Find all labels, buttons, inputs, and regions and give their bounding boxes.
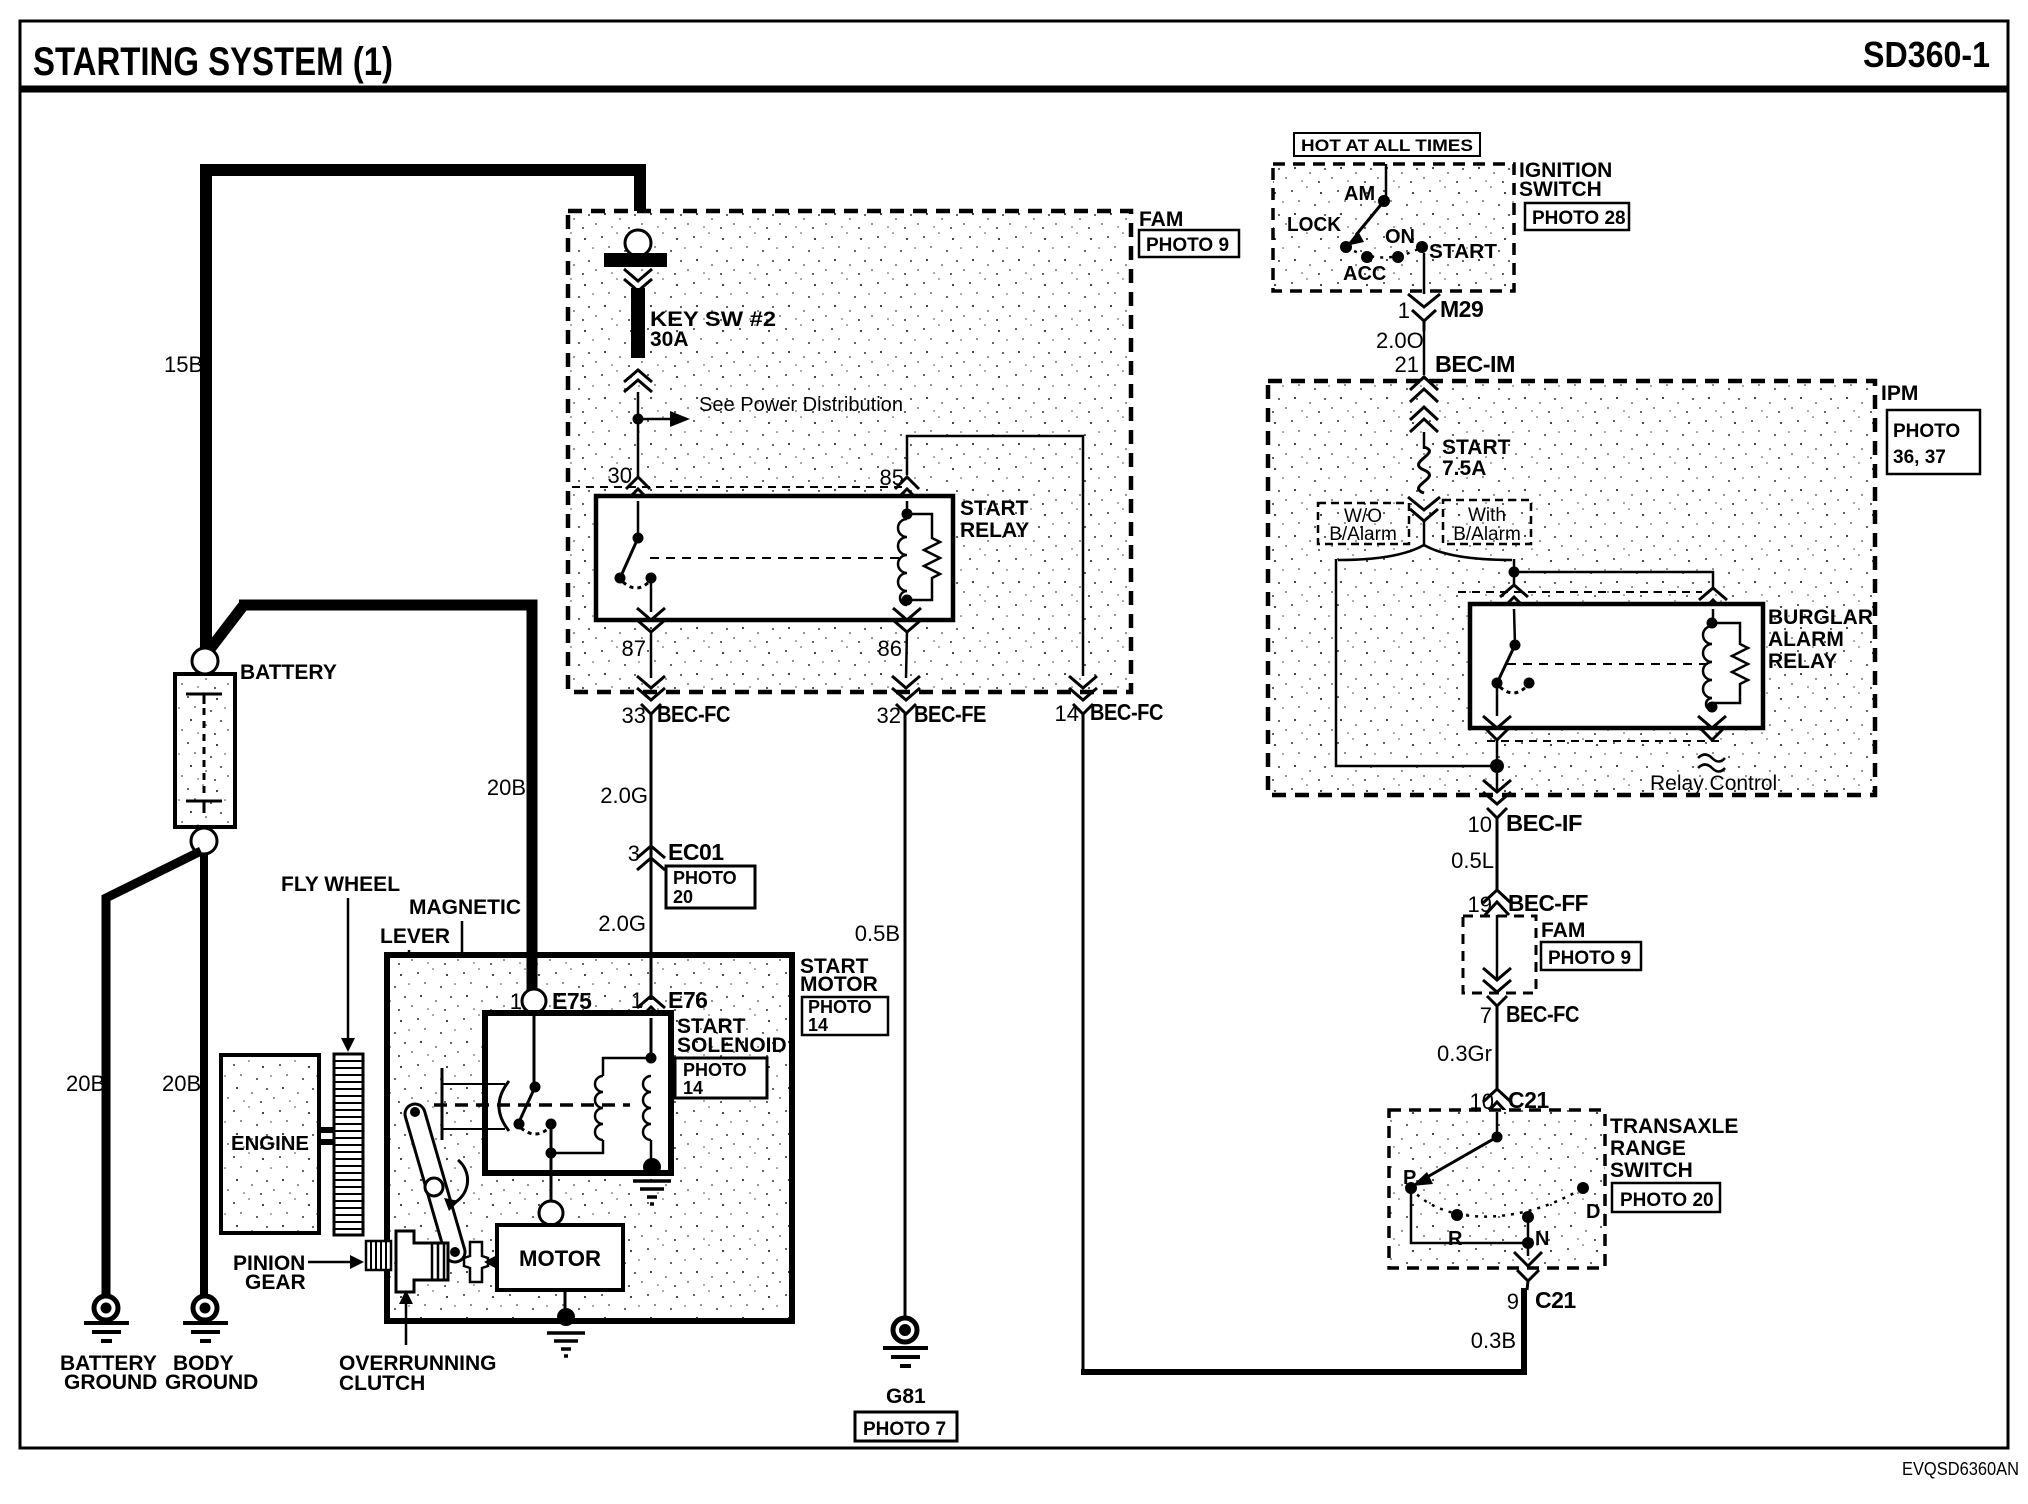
svg-text:FLY WHEEL: FLY WHEEL xyxy=(281,873,400,896)
svg-text:G81: G81 xyxy=(886,1385,926,1408)
wire 0.5B G81 ground wire xyxy=(904,714,907,1317)
svg-text:RANGE: RANGE xyxy=(1610,1137,1686,1160)
node solenoid output junction xyxy=(546,1148,557,1159)
svg-text:32: 32 xyxy=(877,703,901,728)
ground G81 ring terminal xyxy=(883,1318,928,1366)
svg-text:85: 85 xyxy=(880,465,904,490)
svg-text:ALARM: ALARM xyxy=(1768,628,1844,651)
node coil top junction xyxy=(646,1053,657,1064)
svg-text:PHOTO 7: PHOTO 7 xyxy=(863,1419,946,1440)
connector EC01 chevrons xyxy=(637,846,665,870)
svg-text:15B: 15B xyxy=(164,352,203,377)
svg-text:BEC-FE: BEC-FE xyxy=(914,701,986,727)
option box With B/Alarm xyxy=(1443,500,1531,545)
wire from FAM 33 / EC01 down to E76 xyxy=(650,730,653,1000)
connector chevrons pin 86 xyxy=(893,608,921,632)
wire 20B battery negative to battery ground (thick diagonal) xyxy=(106,851,201,1295)
svg-text:P: P xyxy=(1403,1167,1416,1189)
engine block ENGINE xyxy=(221,1055,319,1233)
svg-text:Relay Control: Relay Control xyxy=(1650,772,1777,795)
wire relay switch output to pin 87 xyxy=(650,578,653,612)
photo ref box PHOTO 36, 37 xyxy=(1887,410,1980,474)
svg-text:See Power Distribution: See Power Distribution xyxy=(699,394,903,416)
svg-text:20: 20 xyxy=(673,887,693,907)
crankshaft coupling xyxy=(319,1127,334,1133)
node battery positive terminal xyxy=(192,648,218,674)
wire bottom run to transaxle 0.3B xyxy=(1081,1288,1524,1372)
svg-text:IPM: IPM xyxy=(1881,382,1918,405)
svg-text:E76: E76 xyxy=(668,987,707,1013)
wire tap to relay coil xyxy=(1514,572,1713,588)
relay resistor (start relay) xyxy=(907,514,940,600)
connector chevrons FAM out 33 xyxy=(637,676,665,714)
transaxle range switch dashed box xyxy=(1389,1110,1605,1268)
svg-text:With: With xyxy=(1468,505,1506,526)
photo ref box PHOTO 14 (solenoid) xyxy=(675,1058,767,1098)
svg-text:RELAY: RELAY xyxy=(960,519,1029,542)
svg-text:0.3Gr: 0.3Gr xyxy=(1437,1041,1492,1066)
overrunning clutch body xyxy=(396,1231,448,1292)
svg-text:7.5A: 7.5A xyxy=(1442,457,1486,480)
connector chevrons BEC-IM at IPM edge xyxy=(1410,377,1438,402)
fuse top bar xyxy=(604,253,667,267)
svg-text:33: 33 xyxy=(622,703,646,728)
svg-text:START: START xyxy=(1429,241,1497,263)
relay connector dashed line (bottom) xyxy=(1487,740,1724,742)
wire junction to IPM edge xyxy=(1496,766,1499,792)
connector E76 chevron xyxy=(637,996,665,1018)
svg-text:2.0G: 2.0G xyxy=(598,911,646,936)
svg-text:CLUTCH: CLUTCH xyxy=(339,1372,425,1395)
wire With branch to relay xyxy=(1513,559,1516,585)
wire AM feed xyxy=(1385,164,1388,201)
connector chevrons C21 bottom xyxy=(1514,1252,1542,1290)
transaxle switch contacts xyxy=(1405,1112,1589,1223)
connector chevrons below fuse xyxy=(624,370,652,392)
svg-text:GROUND: GROUND xyxy=(64,1371,157,1394)
wire burglar switch output xyxy=(1496,683,1499,716)
connector chevrons below fuse xyxy=(1408,497,1440,521)
battery BATTERY xyxy=(175,674,235,827)
wire E75 to solenoid switch xyxy=(533,1013,536,1087)
svg-text:BATTERY: BATTERY xyxy=(240,661,337,684)
svg-text:20B: 20B xyxy=(487,775,526,800)
svg-text:FAM: FAM xyxy=(1139,208,1183,231)
burglar alarm relay box xyxy=(1470,604,1763,728)
hot at all times box xyxy=(1294,133,1480,156)
connector chevrons burglar relay coil pin xyxy=(1699,588,1727,612)
magnetic core symbol xyxy=(442,1068,509,1140)
photo ref box PHOTO 9 (FAM) xyxy=(1139,230,1239,257)
connector chevrons burglar relay switch pin xyxy=(1500,585,1528,609)
title separator line xyxy=(20,86,2008,93)
motor MOTOR xyxy=(497,1225,623,1290)
connector chevrons burglar coil out xyxy=(1698,716,1726,740)
node relay output junction xyxy=(1490,759,1504,773)
svg-text:MAGNETIC: MAGNETIC xyxy=(409,896,521,919)
svg-text:LEVER: LEVER xyxy=(380,925,450,948)
svg-text:SD360-1: SD360-1 xyxy=(1863,34,1990,75)
svg-text:BEC-FF: BEC-FF xyxy=(1508,890,1588,916)
svg-text:SOLENOID: SOLENOID xyxy=(677,1034,787,1057)
svg-text:30: 30 xyxy=(608,463,632,488)
connector motor terminal xyxy=(539,1201,563,1225)
node branch to coil tap xyxy=(1509,567,1520,578)
svg-text:BEC-IM: BEC-IM xyxy=(1435,351,1515,377)
IPM module dashed box xyxy=(1268,381,1875,795)
connector chevrons FAM out 32 xyxy=(892,676,920,714)
lever arm xyxy=(410,1107,460,1257)
svg-text:BEC-FC: BEC-FC xyxy=(1506,1001,1579,1027)
connector chevrons C21 top xyxy=(1483,1089,1511,1115)
svg-text:D: D xyxy=(1586,1201,1600,1223)
node N junction xyxy=(1522,1237,1534,1249)
wire through FAM pass-through xyxy=(1496,915,1499,980)
wire junction to pull-in coil xyxy=(551,1140,603,1153)
connector chevrons BEC-IM at IPM edge (overlay) xyxy=(1410,377,1438,402)
svg-text:GEAR: GEAR xyxy=(245,1271,306,1294)
connector chevrons FAM out bottom xyxy=(1483,968,1511,1006)
wire 0.3Gr xyxy=(1496,1006,1499,1090)
node power distribution tap xyxy=(633,414,644,425)
connector chevrons inside IPM xyxy=(1410,407,1438,432)
fly wheel xyxy=(334,1054,363,1235)
svg-text:14: 14 xyxy=(683,1078,703,1098)
ground start motor case ground xyxy=(547,1333,585,1356)
svg-text:MOTOR: MOTOR xyxy=(519,1246,601,1271)
wire motor to case ground xyxy=(564,1290,567,1314)
wire fuse to relay pin 30 xyxy=(637,392,640,478)
svg-text:9: 9 xyxy=(1507,1289,1519,1314)
svg-text:2.0O: 2.0O xyxy=(1376,328,1424,353)
connector chevrons burglar switch out xyxy=(1483,716,1511,740)
coil hold-in winding xyxy=(643,1076,651,1140)
svg-text:PHOTO: PHOTO xyxy=(673,868,737,888)
svg-text:20B: 20B xyxy=(66,1071,105,1096)
start solenoid box xyxy=(485,1013,671,1173)
wire pin 86 to FAM edge xyxy=(906,630,907,678)
connector chevrons pin 85 xyxy=(895,477,919,501)
svg-text:STARTING SYSTEM (1): STARTING SYSTEM (1) xyxy=(33,40,393,84)
svg-text:PHOTO 9: PHOTO 9 xyxy=(1146,235,1229,256)
FAM internal connector dashed line xyxy=(572,486,903,488)
start relay box xyxy=(596,496,953,620)
wire 20B battery to E75 (thick, diagonal + horizontal + vertical) xyxy=(207,606,243,653)
burglar relay switch xyxy=(1492,609,1535,693)
wire W/O bypass branch xyxy=(1336,559,1492,766)
svg-text:PHOTO 28: PHOTO 28 xyxy=(1532,208,1626,229)
coil pull-in winding xyxy=(595,1076,603,1140)
svg-text:MOTOR: MOTOR xyxy=(800,973,878,996)
wire hold-in coil to case ground xyxy=(650,1140,653,1165)
svg-text:C21: C21 xyxy=(1535,1287,1576,1313)
wire START contact to M29 xyxy=(1423,253,1426,294)
svg-text:TRANSAXLE: TRANSAXLE xyxy=(1610,1115,1738,1138)
svg-text:ENGINE: ENGINE xyxy=(231,1133,309,1155)
svg-text:SWITCH: SWITCH xyxy=(1610,1159,1693,1182)
svg-text:GROUND: GROUND xyxy=(165,1371,258,1394)
svg-text:BEC-FC: BEC-FC xyxy=(657,701,730,727)
wire split to alarm branches xyxy=(1423,521,1426,546)
ground body ground terminal xyxy=(183,1296,228,1341)
photo ref box PHOTO 9 (lower) xyxy=(1541,942,1641,970)
solenoid dashed actuation line xyxy=(434,1103,630,1107)
FAM pass-through dashed box xyxy=(1463,916,1536,993)
connector chevrons FAM out 14 xyxy=(1069,676,1097,714)
svg-text:20B: 20B xyxy=(162,1071,201,1096)
svg-text:HOT AT ALL TIMES: HOT AT ALL TIMES xyxy=(1301,136,1473,155)
connector chevrons IPM out 10 xyxy=(1483,780,1511,818)
node battery negative terminal xyxy=(191,828,217,854)
svg-text:0.3B: 0.3B xyxy=(1471,1328,1516,1353)
wire relay pin 85 loop to pin 14 BEC-FC xyxy=(907,436,1083,676)
ground battery ground terminal xyxy=(84,1296,129,1341)
solenoid switch contacts xyxy=(514,1082,557,1135)
svg-text:30A: 30A xyxy=(650,328,689,351)
wire P contact to N junction xyxy=(1411,1188,1528,1243)
wire switch to motor junction xyxy=(550,1124,553,1153)
relay coil (start relay) xyxy=(898,501,913,606)
wire E76 to coil node xyxy=(650,1018,653,1058)
svg-text:PHOTO 9: PHOTO 9 xyxy=(1548,948,1631,969)
svg-text:B/Alarm: B/Alarm xyxy=(1453,524,1521,545)
wire 2.0O xyxy=(1423,331,1426,375)
relay actuation dashed line (burglar) xyxy=(1507,663,1710,665)
wire N contact down xyxy=(1527,1217,1530,1256)
svg-text:B/Alarm: B/Alarm xyxy=(1329,524,1397,545)
svg-text:PHOTO 20: PHOTO 20 xyxy=(1620,1190,1714,1211)
svg-text:RELAY: RELAY xyxy=(1768,650,1837,673)
svg-text:FAM: FAM xyxy=(1541,919,1585,942)
relay switch xyxy=(615,501,657,588)
ignition switch contacts xyxy=(1340,195,1428,263)
svg-text:BEC-FC: BEC-FC xyxy=(1090,699,1163,725)
wire 33 BEC-FC down (2.0G) xyxy=(650,714,653,846)
start motor box START MOTOR xyxy=(387,955,792,1321)
svg-text:BEC-IF: BEC-IF xyxy=(1506,810,1582,836)
wire pull-in coil top to E76 node xyxy=(603,1058,651,1076)
svg-text:3: 3 xyxy=(628,841,640,866)
svg-text:36, 37: 36, 37 xyxy=(1893,447,1946,468)
svg-text:86: 86 xyxy=(878,636,902,661)
relay connector dashed line (top) xyxy=(1458,591,1702,593)
connector chevrons below bar xyxy=(624,269,652,291)
option box W/O B/Alarm xyxy=(1318,503,1409,545)
wire 14 BEC-FC down to bottom run xyxy=(1082,714,1085,1372)
burglar relay resistor xyxy=(1712,623,1748,703)
ignition switch dashed box xyxy=(1273,164,1514,291)
svg-text:EC01: EC01 xyxy=(668,839,724,865)
wire 0.5L xyxy=(1496,818,1499,890)
wire 20B inside start motor box to E75 xyxy=(527,953,538,991)
svg-text:R: R xyxy=(1448,1228,1463,1250)
svg-text:21: 21 xyxy=(1395,352,1419,377)
ground solenoid ground symbol xyxy=(633,1181,671,1204)
svg-text:1: 1 xyxy=(631,988,643,1013)
svg-text:PHOTO: PHOTO xyxy=(808,997,872,1017)
relay actuation dashed line xyxy=(650,557,899,559)
wire to START fuse xyxy=(1423,432,1426,449)
svg-text:14: 14 xyxy=(1055,701,1079,726)
photo ref box PHOTO 20 (transaxle) xyxy=(1612,1183,1720,1212)
wire solenoid switch to motor terminal xyxy=(550,1158,553,1201)
connector chevrons BEC-FF xyxy=(1483,890,1511,915)
svg-text:10: 10 xyxy=(1468,812,1492,837)
svg-text:AM: AM xyxy=(1344,183,1375,205)
svg-text:0.5L: 0.5L xyxy=(1451,848,1494,873)
svg-text:7: 7 xyxy=(1480,1003,1492,1028)
svg-text:SWITCH: SWITCH xyxy=(1519,178,1602,201)
svg-text:START: START xyxy=(1442,436,1511,459)
photo ref box PHOTO 7 xyxy=(855,1412,957,1441)
fuse START 7.5A (wavy) xyxy=(1419,447,1430,493)
photo ref box PHOTO 20 (EC01) xyxy=(666,866,755,908)
node solenoid ground dot xyxy=(643,1158,661,1176)
svg-text:N: N xyxy=(1535,1228,1549,1250)
svg-text:0.5B: 0.5B xyxy=(855,921,900,946)
svg-text:PHOTO: PHOTO xyxy=(1893,421,1960,442)
FAM module dashed box xyxy=(568,211,1131,692)
pinion gear (striped) xyxy=(366,1241,391,1270)
connector chevrons pin 30 xyxy=(626,477,650,501)
wire 15B battery positive to key fuse (thick) xyxy=(206,170,640,652)
svg-text:ON: ON xyxy=(1385,226,1415,248)
svg-text:LOCK: LOCK xyxy=(1287,214,1342,236)
connector E75 terminal xyxy=(522,989,546,1013)
wire pin 87 to FAM edge xyxy=(650,630,653,678)
connector M29 chevrons xyxy=(1408,294,1440,331)
svg-text:2.0G: 2.0G xyxy=(600,783,648,808)
photo ref box PHOTO 28 xyxy=(1525,203,1629,230)
relay control continuation squiggle xyxy=(1698,755,1725,772)
fuse KEY SW #2 30A terminal circle xyxy=(625,230,651,256)
wire tap arrow See Power Distribution xyxy=(638,418,670,421)
svg-text:EVQSD6360AN: EVQSD6360AN xyxy=(1902,1459,2019,1479)
svg-text:14: 14 xyxy=(808,1015,828,1035)
drive shaft coupler xyxy=(464,1242,497,1282)
photo ref box PHOTO 14 (start motor) xyxy=(802,997,888,1035)
burglar relay coil xyxy=(1703,609,1718,713)
svg-text:BURGLAR: BURGLAR xyxy=(1768,606,1873,629)
lever rotation arrow xyxy=(452,1160,468,1204)
node motor ground dot xyxy=(557,1308,575,1326)
svg-text:87: 87 xyxy=(622,636,646,661)
svg-text:M29: M29 xyxy=(1440,296,1483,322)
svg-text:PHOTO: PHOTO xyxy=(683,1060,747,1080)
wire burglar switch to junction xyxy=(1496,740,1499,766)
svg-text:ACC: ACC xyxy=(1343,263,1386,285)
connector chevrons pin 87 xyxy=(637,608,665,632)
fuse body KEY SW #2 30A xyxy=(631,288,645,358)
wire 20B battery negative to body ground (thick) xyxy=(200,854,208,1295)
svg-text:1: 1 xyxy=(1398,298,1410,323)
svg-text:START: START xyxy=(960,497,1029,520)
